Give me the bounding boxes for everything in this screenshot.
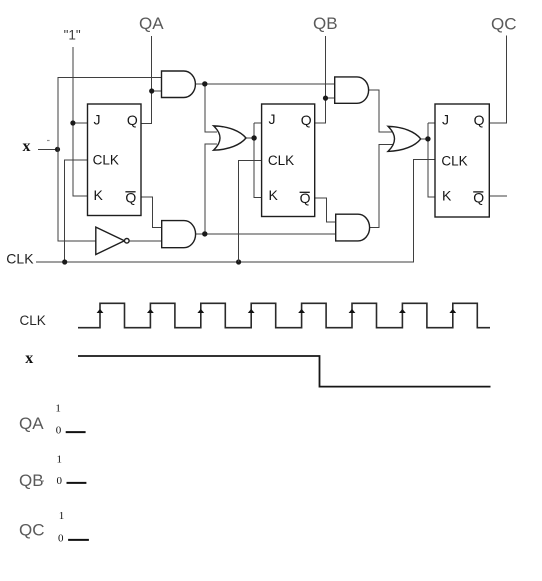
AND gate G2 xyxy=(162,221,196,248)
svg-text:1: 1 xyxy=(57,454,63,466)
x waveform xyxy=(78,356,491,387)
wire AND1 output node xyxy=(195,84,334,132)
junction AND1 output xyxy=(202,81,207,86)
svg-text:QB: QB xyxy=(19,471,44,490)
svg-text:CLK: CLK xyxy=(441,153,467,168)
wire FF2 Qbar to AND4 top input xyxy=(315,198,336,222)
CLK waveform xyxy=(78,303,490,327)
OR gate G6 xyxy=(388,126,421,151)
svg-text:Q: Q xyxy=(301,112,312,128)
svg-text:J: J xyxy=(269,111,276,127)
AND gate G1 xyxy=(162,71,196,98)
svg-text:QC: QC xyxy=(491,14,517,33)
wire CLK bus to FF3 CLK xyxy=(36,160,435,262)
wire FF3 Qbar stub xyxy=(489,195,507,197)
QB label period dot xyxy=(42,480,44,482)
svg-text:0: 0 xyxy=(58,533,64,545)
wire QC net: FF3 Q to label xyxy=(489,36,506,123)
junction QB-AND3 xyxy=(323,96,328,101)
junction AND2 output xyxy=(202,231,207,236)
svg-text:1: 1 xyxy=(59,510,64,522)
clock edge arrow 6 xyxy=(349,309,356,313)
junction OR1 output xyxy=(251,135,256,140)
wire QB net: label to FF2 Q and AND3 bottom input xyxy=(315,36,335,123)
svg-text:K: K xyxy=(442,187,452,203)
svg-text:QC: QC xyxy=(19,520,45,539)
svg-text:CLK: CLK xyxy=(20,313,46,328)
clock edge arrow 4 xyxy=(248,309,255,313)
svg-text:CLK: CLK xyxy=(268,153,294,168)
wire FF2 CLK to clock bus xyxy=(239,160,262,262)
wire OR1 output to FF2 J and K xyxy=(246,123,262,197)
JK flip-flop FF1 xyxy=(88,104,142,216)
wire FF1 Qbar to AND2 top input xyxy=(141,197,162,228)
wire AND3 output to OR2 top input xyxy=(369,90,393,132)
QC zero line xyxy=(68,539,89,541)
clock edge arrow 1 xyxy=(97,309,104,313)
wire QA net: label to FF1 Q and AND1 bottom input xyxy=(141,36,162,124)
JK flip-flop FF2 xyxy=(262,104,315,217)
junction OR2 output xyxy=(425,136,430,141)
wire NOT output to AND2 bottom input xyxy=(129,240,162,242)
wire OR2 output to FF3 J and K xyxy=(421,123,436,197)
svg-text:x: x xyxy=(25,350,33,367)
JK flip-flop FF3 xyxy=(435,104,489,217)
svg-text:1: 1 xyxy=(55,402,61,414)
wire "1" to J and K of FF1 xyxy=(73,47,88,196)
wire FF1 CLK to clock bus xyxy=(65,160,88,262)
stray mark xyxy=(47,140,50,141)
clock edge arrow 2 xyxy=(147,309,154,313)
clock edge arrow 5 xyxy=(298,309,305,313)
svg-text:CLK: CLK xyxy=(93,153,119,168)
svg-text:QA: QA xyxy=(19,414,44,433)
junction "1"-J FF1 xyxy=(70,120,75,125)
clock edge arrow 8 xyxy=(449,309,456,313)
junction QA-AND1 xyxy=(149,88,154,93)
svg-text:0: 0 xyxy=(57,475,63,487)
svg-text:0: 0 xyxy=(56,425,62,437)
svg-text:x: x xyxy=(23,138,31,155)
svg-text:Q: Q xyxy=(127,112,138,128)
wire x to AND1 top input and NOT input xyxy=(58,78,162,241)
junction CLK bus FF1 xyxy=(62,259,67,264)
junction x line xyxy=(55,147,60,152)
inverter G7 xyxy=(96,227,125,254)
svg-text:CLK: CLK xyxy=(6,251,34,267)
junction CLK bus FF2 xyxy=(236,259,241,264)
wire AND4 output to OR2 bottom input xyxy=(370,145,393,228)
clock edge arrow 7 xyxy=(399,309,406,313)
AND gate G4 xyxy=(336,214,370,241)
svg-text:Q: Q xyxy=(474,112,485,128)
timing diagram xyxy=(78,303,491,386)
svg-text:QA: QA xyxy=(139,14,164,33)
inverter G7 bubble xyxy=(125,239,130,244)
AND gate G3 xyxy=(335,77,369,103)
QB zero line xyxy=(67,482,87,484)
svg-text:QB: QB xyxy=(313,14,338,33)
svg-text:"1": "1" xyxy=(64,28,81,43)
node "1" constant label xyxy=(0,0,1,1)
QA zero line xyxy=(66,431,86,433)
svg-text:K: K xyxy=(94,187,104,203)
svg-text:J: J xyxy=(442,111,449,127)
svg-text:J: J xyxy=(94,112,101,128)
OR gate G5 xyxy=(214,126,247,150)
wire x input stub xyxy=(38,148,58,150)
clock edge arrow 3 xyxy=(197,309,204,313)
wire AND2 output node xyxy=(196,144,336,234)
svg-text:K: K xyxy=(269,187,279,203)
